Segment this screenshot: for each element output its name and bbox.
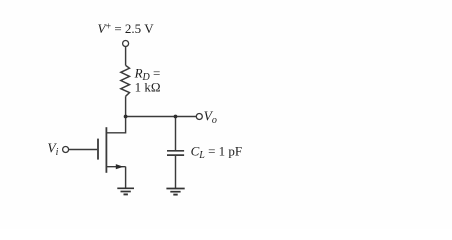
terminal Vo xyxy=(196,114,202,120)
terminal V+ xyxy=(123,41,129,47)
transistor Q1 gate bar xyxy=(97,139,99,160)
wire source to ground xyxy=(125,167,127,189)
wire source xyxy=(106,166,125,168)
ground (capacitor) xyxy=(166,189,184,195)
resistor RD xyxy=(121,65,130,96)
svg-text:1 kΩ: 1 kΩ xyxy=(135,80,161,95)
ground (source) xyxy=(117,188,134,194)
wire resistor to drain node xyxy=(125,96,127,116)
wire node B to capacitor xyxy=(175,117,177,151)
svg-text:V+ = 2.5 V: V+ = 2.5 V xyxy=(98,21,155,36)
wire V+ terminal to resistor xyxy=(125,47,127,66)
wire gate xyxy=(69,149,97,151)
transistor Q1 source arrow xyxy=(116,164,124,169)
terminal Vi xyxy=(63,147,69,153)
node A junction dot xyxy=(124,115,128,119)
svg-text:Vo: Vo xyxy=(204,109,217,127)
capacitor CL plates xyxy=(167,151,184,155)
node B junction dot xyxy=(174,115,178,119)
transistor Q1 channel xyxy=(105,127,107,173)
wire node A to Vo terminal xyxy=(126,116,197,118)
wire capacitor to ground xyxy=(175,155,177,188)
wire drain xyxy=(106,117,125,133)
svg-text:Vi: Vi xyxy=(47,141,58,159)
svg-text:CL = 1 pF: CL = 1 pF xyxy=(191,143,243,161)
